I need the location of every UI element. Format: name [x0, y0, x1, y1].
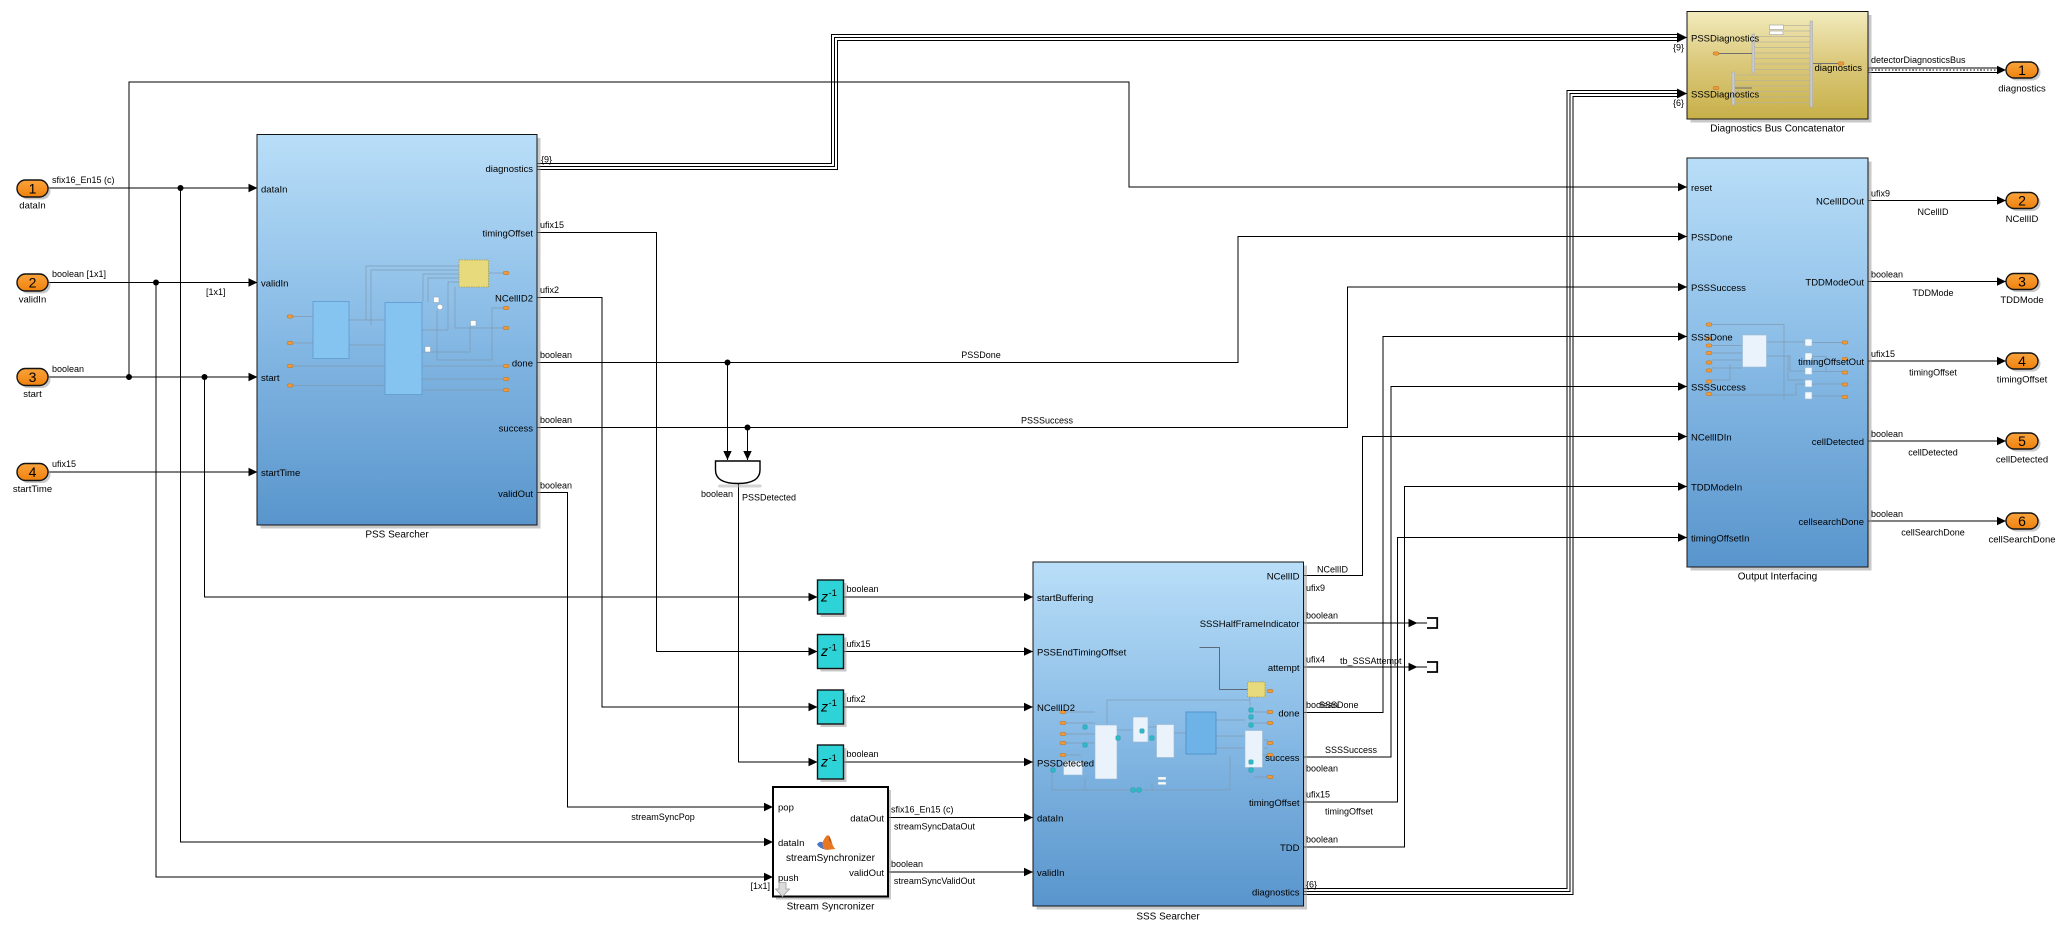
output port 6 cellSearchDone — [1988, 513, 2055, 546]
svg-text:z: z — [820, 643, 828, 659]
svg-text:timingOffsetIn: timingOffsetIn — [1691, 533, 1749, 544]
svg-text:-1: -1 — [829, 588, 837, 599]
svg-text:boolean: boolean — [847, 749, 879, 759]
svg-text:{9}: {9} — [1673, 43, 1684, 53]
output port 5 cellDetected — [1996, 433, 2048, 466]
label boolean on TDD wire — [1306, 835, 1338, 845]
output port 2 NCellID — [2006, 192, 2041, 225]
label timingOffset signal name at output — [1909, 368, 1957, 378]
svg-text:start: start — [261, 373, 280, 384]
label boolean after Delay4 — [847, 749, 879, 759]
wire TDD: SSS TDD to Output Interfacing TDDModeIn — [1304, 482, 1688, 847]
svg-text:SSSSuccess: SSSSuccess — [1325, 745, 1378, 755]
svg-text:boolean: boolean — [540, 481, 572, 491]
wire SSS SSSHalfFrameIndicator to Terminator1 — [1304, 619, 1428, 627]
terminator Terminator2 — [1427, 662, 1437, 672]
svg-text:boolean: boolean — [891, 859, 923, 869]
svg-text:sfix16_En15 (c): sfix16_En15 (c) — [891, 805, 954, 815]
wire Delay2 out to SSS PSSEndTimingOffset — [844, 647, 1034, 655]
label ufix9 on NCellIDOut wire — [1871, 189, 1890, 199]
delay block Delay3 (z^-1) — [818, 690, 847, 727]
wire startTime to PSS Searcher — [48, 468, 258, 476]
output port 3 TDDMode — [2000, 273, 2043, 306]
wire PSSDetected: OR gate output to Delay4 — [739, 483, 818, 766]
label ufix2 after Delay3 — [847, 694, 866, 704]
svg-text:startBuffering: startBuffering — [1037, 593, 1093, 604]
label ufix15 on SSS timingOffset wire — [1306, 790, 1330, 800]
label ufix9 on SSS NCellID wire — [1306, 583, 1325, 593]
label boolean on streamSyncValidOut wire — [891, 859, 923, 869]
label boolean on SSS success wire — [1306, 764, 1338, 774]
svg-text:z: z — [820, 589, 828, 605]
label boolean on cellsearchDone wire — [1871, 509, 1903, 519]
svg-text:boolean: boolean — [847, 584, 879, 594]
label NCellID signal name near SSS — [1317, 565, 1349, 575]
svg-text:NCellID2: NCellID2 — [495, 293, 533, 304]
svg-text:PSSDone: PSSDone — [961, 350, 1001, 360]
svg-text:attempt: attempt — [1268, 663, 1300, 674]
label ufix2 on NCellID2 wire — [540, 285, 559, 295]
label streamSyncDataOut signal name — [894, 822, 976, 832]
wire Delay3 out to SSS NCellID2 — [844, 703, 1034, 711]
svg-text:detectorDiagnosticsBus: detectorDiagnosticsBus — [1871, 55, 1966, 65]
label sfix16_En15 (c) on dataIn wire — [52, 175, 115, 185]
label boolean on success wire — [540, 415, 572, 425]
svg-text:NCellID: NCellID — [2006, 214, 2039, 225]
terminator Terminator1 — [1427, 618, 1437, 628]
svg-text:validOut: validOut — [849, 868, 884, 879]
svg-text:2: 2 — [2018, 192, 2026, 208]
svg-text:timingOffset: timingOffset — [482, 228, 533, 239]
svg-text:timingOffset: timingOffset — [1909, 368, 1957, 378]
svg-text:NCellID: NCellID — [1267, 571, 1300, 582]
svg-text:3: 3 — [2018, 273, 2026, 289]
wire start branch to Delay1 — [205, 377, 818, 601]
svg-text:validOut: validOut — [498, 489, 533, 500]
label boolean [1x1] on validIn wire — [52, 269, 106, 279]
wire dataIn to PSS Searcher — [48, 184, 258, 192]
svg-text:boolean: boolean — [1871, 509, 1903, 519]
svg-text:ufix15: ufix15 — [540, 220, 564, 230]
label Diagnostics Bus Concatenator — [1710, 124, 1845, 135]
wire PSSDone: PSS done to Output Interfacing PSSDone — [537, 232, 1687, 365]
label Output Interfacing — [1738, 572, 1818, 583]
label Stream Syncronizer — [787, 902, 875, 913]
svg-text:z: z — [820, 699, 828, 715]
label boolean on SSSHalfFrameIndicator wire — [1306, 611, 1338, 621]
svg-text:NCellID2: NCellID2 — [1037, 703, 1075, 714]
wire SSSSuccess: SSS success to Output Interfacing SSSSuccess — [1304, 382, 1688, 757]
label SSSDone signal name — [1319, 700, 1359, 710]
wire validIn to PSS Searcher — [48, 278, 258, 286]
svg-text:3: 3 — [29, 369, 37, 385]
svg-text:Output Interfacing: Output Interfacing — [1738, 572, 1818, 583]
svg-text:SSSHalfFrameIndicator: SSSHalfFrameIndicator — [1200, 619, 1300, 630]
svg-text:NCellIDOut: NCellIDOut — [1816, 196, 1864, 207]
svg-text:tb_SSSAttempt: tb_SSSAttempt — [1340, 656, 1402, 666]
svg-text:diagnostics: diagnostics — [1998, 84, 2046, 95]
wire timingOffset: timingOffsetOut to port timingOffset — [1868, 357, 2006, 365]
label boolean on TDDModeOut wire — [1871, 270, 1903, 280]
label SSS Searcher — [1136, 912, 1200, 923]
svg-text:timingOffset: timingOffset — [1997, 375, 2048, 386]
svg-text:streamSynchronizer: streamSynchronizer — [786, 853, 876, 864]
svg-text:TDDModeIn: TDDModeIn — [1691, 482, 1742, 493]
svg-text:SSS Searcher: SSS Searcher — [1136, 912, 1200, 923]
label [1x1] at Stream push — [750, 881, 770, 891]
label boolean on SSS done wire — [1306, 700, 1338, 710]
svg-text:ufix15: ufix15 — [847, 639, 871, 649]
svg-text:boolean: boolean — [1306, 611, 1338, 621]
label ufix15 on startTime wire — [52, 459, 76, 469]
label tb_SSSAttempt signal name — [1340, 656, 1402, 666]
wire branch done to OR gate input 1 — [723, 363, 731, 461]
svg-text:boolean: boolean — [1871, 270, 1903, 280]
svg-text:done: done — [1278, 708, 1299, 719]
svg-text:1: 1 — [29, 180, 37, 196]
svg-text:[1x1]: [1x1] — [206, 287, 226, 297]
wire bus detectorDiagnosticsBus: Bus Concatenator diagnostics to port diagnostics — [1868, 66, 2006, 74]
wire cellDetected: cellDetected to port cellDetected — [1868, 437, 2006, 445]
svg-text:cellDetected: cellDetected — [1996, 455, 2048, 466]
label boolean after Delay1 — [847, 584, 879, 594]
wire PSSSuccess: PSS success to Output Interfacing PSSSuccess — [537, 283, 1687, 431]
wire TDDMode: TDDModeOut to port TDDMode — [1868, 277, 2006, 285]
svg-text:{9}: {9} — [541, 155, 552, 165]
wire dataIn branch to Stream Syncronizer dataIn — [181, 188, 774, 846]
label detectorDiagnosticsBus signal name — [1871, 55, 1966, 65]
svg-text:ufix2: ufix2 — [540, 285, 559, 295]
wire Delay4 out to SSS PSSDetected — [844, 758, 1034, 766]
svg-text:NCellIDIn: NCellIDIn — [1691, 432, 1732, 443]
svg-text:cellsearchDone: cellsearchDone — [1799, 517, 1864, 528]
label PSSDone signal name — [961, 350, 1001, 360]
delay block Delay1 (z^-1) — [818, 580, 847, 617]
svg-text:NCellID: NCellID — [1917, 207, 1949, 217]
svg-text:boolean: boolean — [52, 364, 84, 374]
svg-text:PSS Searcher: PSS Searcher — [365, 530, 429, 541]
label boolean on validOut wire — [540, 481, 572, 491]
block Stream Syncronizer (MATLAB Function) — [773, 787, 891, 900]
label boolean at OR output — [701, 489, 733, 499]
svg-text:TDDModeOut: TDDModeOut — [1805, 277, 1864, 288]
label NCellID signal name — [1917, 207, 1949, 217]
label ufix15 on timingOffset wire — [540, 220, 564, 230]
wire validIn branch to Stream Syncronizer push — [156, 283, 773, 882]
svg-text:ufix9: ufix9 — [1871, 189, 1890, 199]
svg-text:6: 6 — [2018, 513, 2026, 529]
svg-text:boolean: boolean — [540, 350, 572, 360]
svg-text:TDD: TDD — [1280, 843, 1300, 854]
svg-text:streamSyncDataOut: streamSyncDataOut — [894, 822, 976, 832]
svg-text:ufix15: ufix15 — [1306, 790, 1330, 800]
label [1x1] at PSS validIn — [206, 287, 226, 297]
svg-text:dataOut: dataOut — [850, 813, 884, 824]
svg-text:PSSDetected: PSSDetected — [742, 493, 796, 503]
svg-text:-1: -1 — [829, 753, 837, 764]
svg-text:SSSDiagnostics: SSSDiagnostics — [1691, 89, 1759, 100]
wire start to PSS Searcher — [48, 373, 258, 381]
output port 1 diagnostics — [1998, 62, 2046, 95]
wire SSSDone: SSS done to Output Interfacing SSSDone — [1304, 332, 1688, 712]
svg-text:success: success — [1265, 753, 1300, 764]
svg-text:PSSDone: PSSDone — [1691, 232, 1733, 243]
wire cellSearchDone: cellsearchDone to port cellSearchDone — [1868, 517, 2006, 525]
wire tb_SSSAttempt: SSS attempt to Terminator2 — [1304, 663, 1428, 671]
label {9} on PSS diagnostics bus — [541, 155, 552, 165]
subsystem SSS Searcher — [1033, 562, 1307, 910]
label {9} at Bus Concatenator PSSDiagnostics input — [1673, 43, 1684, 53]
svg-text:ufix15: ufix15 — [1871, 349, 1895, 359]
svg-text:boolean: boolean — [540, 415, 572, 425]
subsystem PSS Searcher — [257, 135, 541, 529]
svg-text:boolean: boolean — [1871, 429, 1903, 439]
svg-text:SSSSuccess: SSSSuccess — [1691, 382, 1746, 393]
svg-text:[1x1]: [1x1] — [750, 881, 770, 891]
wire start branch to Output Interfacing reset — [129, 82, 1687, 377]
svg-text:NCellID: NCellID — [1317, 565, 1349, 575]
input port 4 startTime — [13, 464, 52, 496]
svg-text:PSSEndTimingOffset: PSSEndTimingOffset — [1037, 647, 1127, 658]
svg-text:boolean: boolean — [1306, 764, 1338, 774]
svg-text:dataIn: dataIn — [19, 201, 45, 212]
label ufix4 on attempt wire — [1306, 655, 1325, 665]
label streamSyncPop signal name — [631, 812, 695, 822]
label cellSearchDone signal name — [1901, 528, 1965, 538]
label {6} on SSS diagnostics bus — [1306, 880, 1317, 890]
svg-text:cellDetected: cellDetected — [1812, 437, 1864, 448]
svg-text:startTime: startTime — [13, 484, 52, 495]
svg-text:success: success — [499, 423, 534, 434]
svg-text:SSSDone: SSSDone — [1319, 700, 1359, 710]
svg-text:Stream Syncronizer: Stream Syncronizer — [787, 902, 875, 913]
label sfix16_En15 (c) on streamSyncDataOut wire — [891, 805, 954, 815]
svg-text:ufix15: ufix15 — [52, 459, 76, 469]
label boolean on start wire — [52, 364, 84, 374]
label timingOffset signal name — [1325, 807, 1373, 817]
svg-text:PSSSuccess: PSSSuccess — [1021, 416, 1074, 426]
wire streamSyncDataOut: Stream Syncronizer dataOut to SSS dataIn — [888, 813, 1033, 821]
svg-text:Diagnostics Bus Concatenator: Diagnostics Bus Concatenator — [1710, 124, 1845, 135]
svg-text:timingOffset: timingOffset — [1249, 798, 1300, 809]
svg-text:ufix2: ufix2 — [847, 694, 866, 704]
svg-text:pop: pop — [778, 802, 794, 813]
wire bus PSS diagnostics {9} to Diagnostics Bus Concatenator — [537, 33, 1687, 170]
subsystem Output Interfacing — [1687, 158, 1872, 571]
svg-text:SSSDone: SSSDone — [1691, 332, 1733, 343]
logical OR operator (PSSDetected) — [716, 461, 762, 488]
svg-text:z: z — [820, 754, 828, 770]
block Diagnostics Bus Concatenator — [1687, 12, 1872, 123]
svg-text:4: 4 — [29, 464, 37, 480]
wire streamSyncValidOut: Stream Syncronizer validOut to SSS validIn — [888, 868, 1033, 876]
svg-text:-1: -1 — [829, 698, 837, 709]
wire NCellID: Output Interfacing NCellIDOut to port NCellID — [1868, 196, 2006, 204]
svg-text:timingOffset: timingOffset — [1325, 807, 1373, 817]
svg-text:diagnostics: diagnostics — [1252, 887, 1300, 898]
wire PSS NCellID2 to Delay3 — [537, 298, 818, 712]
svg-text:dataIn: dataIn — [261, 184, 287, 195]
svg-text:{6}: {6} — [1673, 98, 1684, 108]
svg-text:{6}: {6} — [1306, 880, 1317, 890]
svg-text:-1: -1 — [829, 643, 837, 654]
delay block Delay4 (z^-1) — [818, 745, 847, 782]
svg-text:cellSearchDone: cellSearchDone — [1901, 528, 1965, 538]
svg-text:2: 2 — [29, 274, 37, 290]
svg-text:1: 1 — [2018, 62, 2026, 78]
svg-text:cellDetected: cellDetected — [1908, 448, 1958, 458]
label PSSSuccess signal name — [1021, 416, 1074, 426]
label {6} at Bus Concatenator SSSDiagnostics input — [1673, 98, 1684, 108]
input port 2 validIn — [17, 274, 51, 306]
delay block Delay2 (z^-1) — [818, 635, 847, 672]
label ufix15 on timingOffsetOut wire — [1871, 349, 1895, 359]
label PSS Searcher — [365, 530, 429, 541]
svg-text:sfix16_En15 (c): sfix16_En15 (c) — [52, 175, 115, 185]
svg-text:dataIn: dataIn — [1037, 813, 1063, 824]
label ufix15 after Delay2 — [847, 639, 871, 649]
label SSSSuccess signal name — [1325, 745, 1378, 755]
svg-text:boolean: boolean — [701, 489, 733, 499]
wire Delay1 out to SSS startBuffering — [844, 593, 1034, 601]
svg-text:streamSyncValidOut: streamSyncValidOut — [894, 876, 976, 886]
wire SSS NCellID to Output Interfacing NCellIDIn — [1304, 432, 1688, 575]
svg-text:TDDMode: TDDMode — [1912, 288, 1953, 298]
label boolean on done wire — [540, 350, 572, 360]
label PSSDetected signal name — [742, 493, 796, 503]
wire PSS validOut to Stream Syncronizer pop (streamSyncPop) — [537, 493, 773, 812]
svg-text:diagnostics: diagnostics — [485, 164, 533, 175]
svg-text:start: start — [23, 389, 42, 400]
svg-text:reset: reset — [1691, 183, 1712, 194]
svg-text:startTime: startTime — [261, 468, 300, 479]
wire bus SSS diagnostics {6} to Bus Concatenator SSSDiagnostics — [1304, 89, 1688, 895]
svg-text:PSSSuccess: PSSSuccess — [1691, 283, 1746, 294]
svg-text:done: done — [512, 358, 533, 369]
svg-text:PSSDetected: PSSDetected — [1037, 758, 1094, 769]
svg-text:boolean: boolean — [1306, 835, 1338, 845]
svg-text:boolean [1x1]: boolean [1x1] — [52, 269, 106, 279]
svg-text:dataIn: dataIn — [778, 838, 804, 849]
output port 4 timingOffset — [1997, 353, 2048, 386]
wire timingOffset: SSS timingOffset to Output Interfacing timingOffsetIn — [1304, 533, 1688, 802]
label streamSyncValidOut signal name — [894, 876, 976, 886]
svg-text:validIn: validIn — [1037, 868, 1064, 879]
svg-text:4: 4 — [2018, 353, 2026, 369]
svg-text:timingOffsetOut: timingOffsetOut — [1798, 357, 1864, 368]
svg-text:validIn: validIn — [261, 278, 288, 289]
wire branch success to OR gate input 2 — [743, 428, 751, 461]
svg-text:cellSearchDone: cellSearchDone — [1988, 535, 2055, 546]
svg-text:5: 5 — [2018, 433, 2026, 449]
svg-text:PSSDiagnostics: PSSDiagnostics — [1691, 33, 1759, 44]
svg-text:validIn: validIn — [19, 295, 46, 306]
svg-text:streamSyncPop: streamSyncPop — [631, 812, 695, 822]
wire PSS timingOffset to Delay2 — [537, 233, 818, 656]
svg-text:TDDMode: TDDMode — [2000, 295, 2043, 306]
input port 3 start — [17, 369, 51, 401]
label boolean on cellDetected wire — [1871, 429, 1903, 439]
input port 1 dataIn — [17, 180, 51, 212]
svg-text:ufix9: ufix9 — [1306, 583, 1325, 593]
svg-text:ufix4: ufix4 — [1306, 655, 1325, 665]
label TDDMode signal name — [1912, 288, 1953, 298]
label cellDetected signal name — [1908, 448, 1958, 458]
